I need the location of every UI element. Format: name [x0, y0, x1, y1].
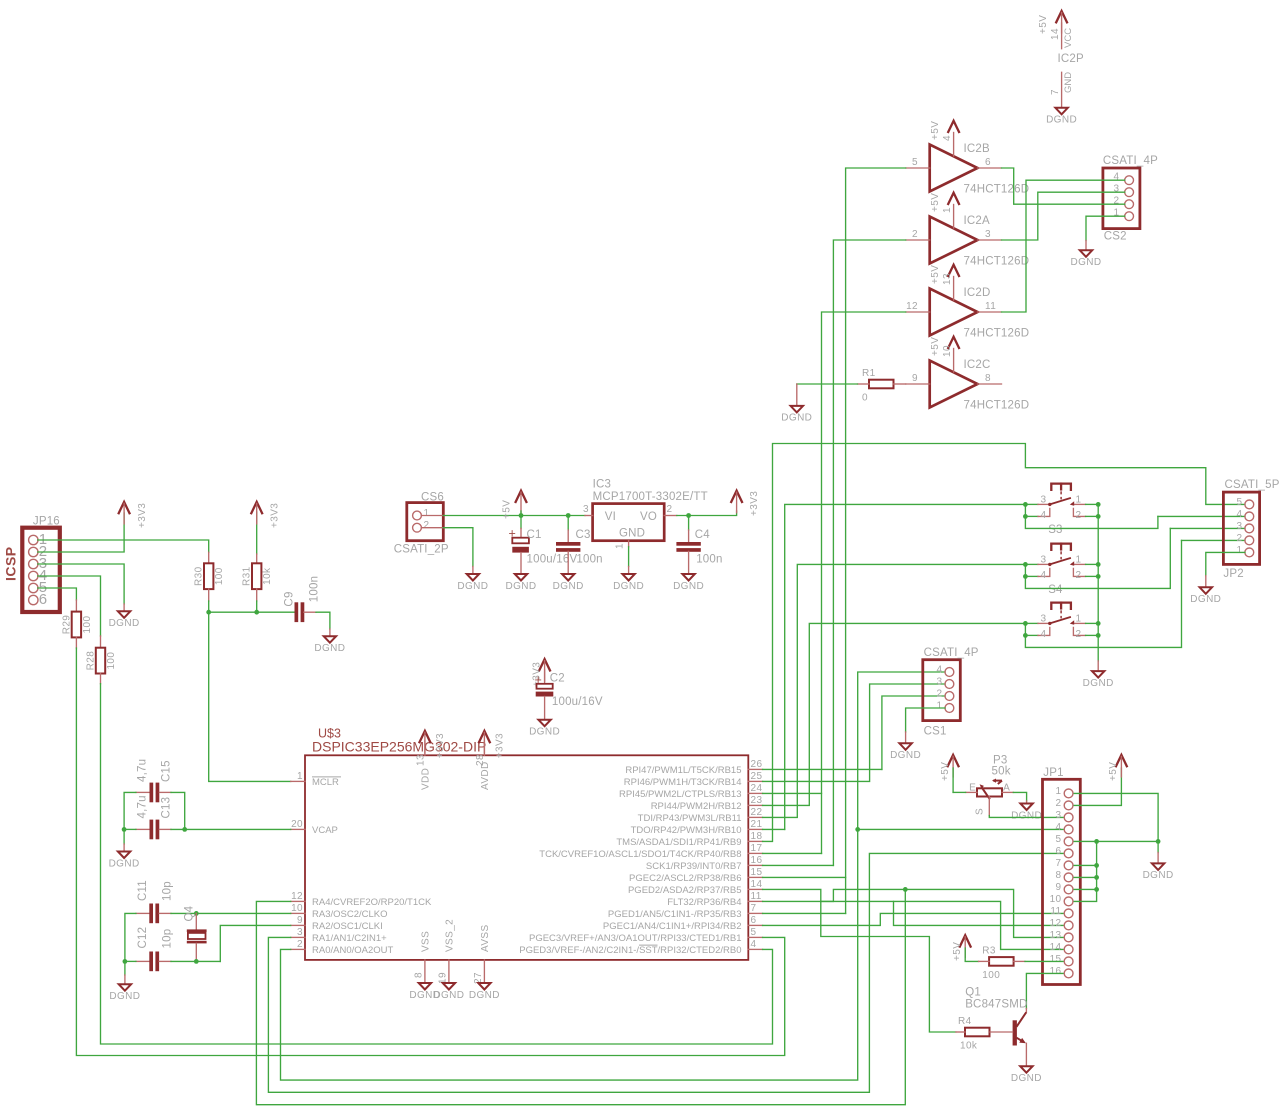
svg-text:100: 100	[106, 652, 117, 670]
svg-text:18: 18	[751, 831, 763, 842]
svg-text:2: 2	[1056, 798, 1062, 809]
svg-text:PGED2/ASDA2/RP37/RB5: PGED2/ASDA2/RP37/RB5	[628, 885, 742, 896]
wire S3 output to JP2 pin4	[1158, 515, 1245, 517]
svg-text:+3V3: +3V3	[269, 503, 280, 528]
svg-text:4: 4	[1041, 510, 1047, 521]
U$3 power pin 28 AVDD with +3V3	[475, 731, 506, 790]
svg-text:Q4: Q4	[184, 905, 196, 921]
svg-text:4: 4	[1041, 570, 1047, 581]
svg-text:+5V: +5V	[930, 337, 941, 356]
wire U$3 pin21 to switch S3 input	[763, 504, 1026, 829]
svg-text:DGND: DGND	[781, 413, 812, 424]
IC U$3 DSPIC33EP256MG302-DIP body	[305, 727, 748, 960]
svg-text:RPI44/PWM2H/RB12: RPI44/PWM2H/RB12	[651, 801, 742, 812]
wire CS6 pin1 to regulator VI	[421, 513, 585, 518]
svg-text:16: 16	[1050, 966, 1062, 977]
resistor R4 10k	[956, 1016, 1013, 1052]
wire JP1 pin2 to +5V	[1074, 768, 1121, 805]
svg-text:TMS/ASDA1/SDI1/RP41/RB9: TMS/ASDA1/SDI1/RP41/RB9	[616, 837, 741, 848]
svg-text:3: 3	[1041, 554, 1047, 565]
svg-text:CSATI_2P: CSATI_2P	[394, 544, 449, 556]
wire JP1 pin1 to ground riser	[1074, 793, 1158, 841]
svg-text:9: 9	[1056, 882, 1062, 893]
svg-text:4,7u: 4,7u	[137, 795, 149, 818]
wire R1 to DGND junction	[797, 383, 858, 385]
svg-text:22: 22	[751, 807, 763, 818]
svg-text:7: 7	[1056, 858, 1062, 869]
svg-text:13: 13	[415, 754, 426, 766]
ground DGND for IC2P	[1046, 108, 1077, 126]
ground DGND at CS6 pin2	[457, 567, 488, 592]
svg-text:SCK1/RP39/INT0/RB7: SCK1/RP39/INT0/RB7	[646, 861, 742, 872]
U$3 pin 10 RA3/OSC2/CLKO	[291, 903, 388, 920]
svg-text:100u/16V: 100u/16V	[552, 696, 603, 708]
ground DGND at R1	[781, 384, 812, 424]
wire R3 to JP1 pin15	[1025, 960, 1063, 962]
wire U$3 pin2 RA0 via bottom bus to CS1 pin4	[281, 672, 946, 1080]
svg-text:VI: VI	[605, 511, 616, 523]
svg-text:IC2C: IC2C	[964, 359, 991, 371]
power symbol +5V for IC2P	[1038, 11, 1067, 34]
svg-text:RPI46/PWM1H/T3CK/RB14: RPI46/PWM1H/T3CK/RB14	[624, 777, 742, 788]
wire CS2 pin 1 to ground	[1086, 216, 1125, 240]
svg-text:GND: GND	[619, 528, 645, 540]
capacitor C12 10p	[136, 927, 174, 971]
svg-text:4: 4	[937, 665, 943, 676]
connector CS1 CSATI_4P	[923, 647, 979, 738]
resistor R31 10k	[242, 512, 274, 601]
svg-text:11: 11	[985, 301, 996, 312]
svg-text:MCP1700T-3302E/TT: MCP1700T-3302E/TT	[593, 491, 708, 503]
switch S4	[1025, 544, 1098, 596]
svg-text:23: 23	[751, 795, 763, 806]
wire IC2D output to CS2 pin 4	[1002, 180, 1125, 312]
svg-text:PGEC1/AN4/C1IN1+/RPI34/RB2: PGEC1/AN4/C1IN1+/RPI34/RB2	[603, 921, 742, 932]
op-amp buffer IC2C 74HCT126D	[906, 337, 1030, 412]
wire U$3 pin24 and pin17 to IC2D input	[763, 312, 906, 853]
svg-text:12: 12	[906, 301, 918, 312]
svg-text:VDD: VDD	[420, 768, 431, 790]
svg-text:DSPIC33EP256MG302-DIP: DSPIC33EP256MG302-DIP	[312, 739, 486, 755]
svg-text:TDO/RP42/PWM3H/RB10: TDO/RP42/PWM3H/RB10	[631, 825, 742, 836]
svg-text:2: 2	[937, 689, 943, 700]
wire JP1 pins 7 8 9 10 common column	[1074, 841, 1099, 901]
wire P3 A to ground	[1013, 792, 1026, 801]
svg-text:C11: C11	[137, 880, 149, 901]
ground DGND at JP1	[1143, 853, 1174, 882]
svg-text:+5V: +5V	[930, 121, 941, 140]
svg-text:RA0/AN0/OA2OUT: RA0/AN0/OA2OUT	[312, 945, 393, 956]
U$3 pin 9 RA2/OSC1/CLKI	[291, 915, 383, 932]
wire U$3 pin18 to JP2 pin5	[763, 444, 1245, 842]
U$3 pin 4 PGED3/VREF-/AN2/C2IN1-/SST/RPI32/CTED2/RB0	[519, 939, 762, 956]
svg-text:C9: C9	[284, 591, 296, 606]
ground DGND at C4	[673, 574, 704, 592]
wire U$3 pin22 to switch S4 input	[763, 564, 1026, 817]
svg-text:11: 11	[1050, 906, 1061, 917]
svg-text:PGED1/AN5/C1IN1-/RP35/RB3: PGED1/AN5/C1IN1-/RP35/RB3	[608, 909, 742, 920]
svg-text:7: 7	[751, 903, 757, 914]
svg-text:3: 3	[297, 927, 303, 938]
svg-text:10k: 10k	[960, 1041, 978, 1052]
svg-text:DGND: DGND	[1011, 810, 1042, 821]
svg-text:3: 3	[1237, 521, 1243, 532]
svg-text:DGND: DGND	[1190, 594, 1221, 605]
wire U$3 pin25 and pin16 to IC2A input and CS1 pin3	[763, 240, 945, 865]
svg-text:6: 6	[39, 591, 47, 608]
svg-text:IC3: IC3	[593, 479, 612, 491]
wire U$3 pin3 RA1 via bottom bus to JP1 pin6 feed	[268, 853, 1063, 1092]
wire +5V to R3	[965, 948, 978, 961]
connector JP16 ICSP	[3, 516, 60, 613]
svg-text:6: 6	[1056, 846, 1062, 857]
U$3 pin 21 TDO/RP42/PWM3H/RB10	[631, 819, 763, 836]
wire to JP1 pin14 via riser at x=1000.6	[821, 901, 1063, 949]
svg-text:10p: 10p	[162, 929, 174, 949]
U$3 pin 20 VCAP	[291, 819, 338, 836]
svg-text:6: 6	[751, 915, 757, 926]
svg-text:RA3/OSC2/CLKO: RA3/OSC2/CLKO	[312, 909, 388, 920]
svg-text:CS1: CS1	[924, 726, 947, 738]
svg-text:1: 1	[615, 543, 626, 549]
svg-text:VCC: VCC	[1063, 28, 1074, 48]
power symbol +3V3 at C2	[531, 659, 550, 687]
U$3 pin 3 RA1/AN1/C2IN1+	[291, 927, 387, 944]
svg-text:DGND: DGND	[314, 643, 345, 654]
svg-text:DGND: DGND	[433, 990, 464, 1001]
svg-text:2: 2	[1076, 629, 1082, 640]
U$3 ground pin 27 AVSS	[469, 924, 500, 1000]
svg-text:10: 10	[291, 903, 303, 914]
connector JP2 CSATI_5P	[1223, 479, 1279, 580]
svg-text:FLT32/RP36/RB4: FLT32/RP36/RB4	[667, 897, 741, 908]
svg-text:Q1: Q1	[965, 987, 981, 999]
ground DGND at C12	[109, 975, 140, 1002]
power symbol +3V3 at R31	[251, 502, 280, 528]
svg-text:DGND: DGND	[553, 581, 584, 592]
U$3 pin 26 RPI47/PWM1L/T5CK/RB15	[625, 759, 762, 776]
svg-text:2: 2	[1237, 533, 1243, 544]
svg-text:IC2B: IC2B	[964, 143, 990, 155]
svg-text:17: 17	[751, 843, 763, 854]
U$3 pin 12 RA4/CVREF2O/RP20/T1CK	[291, 891, 432, 908]
svg-text:DGND: DGND	[529, 727, 560, 738]
svg-text:IC2A: IC2A	[964, 215, 990, 227]
capacitor C15 4,7u	[136, 759, 173, 802]
wire C12 row junctions	[123, 959, 221, 964]
ground DGND at IC3	[613, 567, 644, 592]
svg-text:+3V3: +3V3	[749, 491, 760, 516]
power symbol +5V at P3	[940, 755, 959, 781]
svg-text:CSATI_4P: CSATI_4P	[924, 647, 979, 659]
svg-text:1: 1	[1114, 208, 1120, 219]
wire C9 to ground	[316, 612, 330, 629]
svg-text:1: 1	[424, 508, 430, 519]
svg-text:DGND: DGND	[505, 581, 536, 592]
svg-text:R4: R4	[958, 1016, 972, 1027]
svg-text:C3: C3	[576, 529, 591, 541]
svg-text:R28: R28	[86, 651, 97, 671]
svg-text:2: 2	[297, 939, 303, 950]
svg-text:DGND: DGND	[1011, 1073, 1042, 1084]
svg-text:PGEC3/VREF+/AN3/OA1OUT/RPI33/C: PGEC3/VREF+/AN3/OA1OUT/RPI33/CTED1/RB1	[529, 933, 742, 944]
capacitor C11 10p	[136, 880, 174, 923]
ground DGND at C3	[553, 574, 584, 592]
svg-text:JP16: JP16	[33, 516, 60, 528]
svg-text:4: 4	[1114, 172, 1120, 183]
svg-text:S: S	[975, 808, 986, 815]
svg-text:+: +	[535, 673, 542, 687]
power symbol +5V at R3	[952, 935, 971, 961]
ground DGND at C2	[529, 720, 560, 738]
IC2P GND pin 7	[1050, 72, 1074, 108]
wire U$3 pin23 to switch S5 input	[763, 623, 1026, 805]
svg-text:TCK/CVREF1O/ASCL1/SDO1/T4CK/RP: TCK/CVREF1O/ASCL1/SDO1/T4CK/RP40/RB8	[539, 849, 741, 860]
svg-text:C2: C2	[550, 673, 565, 685]
svg-text:16: 16	[751, 855, 763, 866]
svg-text:5: 5	[1237, 497, 1243, 508]
svg-text:4: 4	[1237, 509, 1243, 520]
op-amp buffer IC2B 74HCT126D	[906, 121, 1030, 196]
wire JP16 pin4 to R28	[38, 576, 101, 636]
svg-text:RA1/AN1/C2IN1+: RA1/AN1/C2IN1+	[312, 933, 387, 944]
wire C11 right to U$3 pin 10	[171, 911, 291, 916]
wire VCAP row to U$3 pin 20	[122, 827, 291, 832]
svg-text:GND: GND	[1063, 72, 1074, 93]
capacitor C4 100n	[676, 516, 722, 575]
U$3 pin 24 RPI45/PWM2L/CTPLS/RB13	[619, 783, 763, 800]
transistor Q1 BC847SMD	[965, 987, 1027, 1067]
capacitor C3 100n	[556, 516, 603, 575]
svg-text:+3V3: +3V3	[494, 733, 505, 758]
svg-text:+5V: +5V	[930, 265, 941, 284]
svg-text:4: 4	[1041, 629, 1047, 640]
svg-text:2: 2	[667, 504, 673, 515]
ground DGND at CS1	[890, 732, 921, 761]
svg-text:R3: R3	[982, 945, 996, 956]
svg-text:2: 2	[424, 520, 430, 531]
resistor R28 100	[86, 636, 118, 684]
wire U$3 pin11 to JP1 pin13	[763, 889, 1063, 937]
svg-text:RA4/CVREF2O/RP20/T1CK: RA4/CVREF2O/RP20/T1CK	[312, 897, 432, 908]
power symbol +3V3 at regulator output	[731, 491, 760, 516]
wire JP16 pin1 to R30	[38, 540, 209, 552]
capacitor C1 100u/16V	[509, 527, 578, 575]
svg-text:+3V3: +3V3	[137, 503, 148, 528]
U$3 pin 22 TDI/RP43/PWM3L/RB11	[638, 807, 763, 824]
svg-text:+5V: +5V	[502, 500, 513, 519]
power symbol +5V at JP1 pin2	[1108, 755, 1127, 781]
svg-text:100: 100	[214, 567, 225, 585]
svg-text:2: 2	[912, 229, 918, 240]
svg-text:100u/16V: 100u/16V	[527, 554, 578, 566]
svg-text:1: 1	[1076, 554, 1082, 565]
ground DGND at P3	[1011, 801, 1042, 821]
wire JP2 pin1 to ground	[1206, 552, 1245, 575]
capacitor C9 100n	[284, 576, 321, 622]
svg-text:14: 14	[1050, 942, 1062, 953]
wire JP1 pin5 ground row	[1074, 839, 1160, 844]
wire U$3 pin4 via R28 bus to JP16	[101, 684, 773, 1044]
U$3 pin 18 TMS/ASDA1/SDI1/RP41/RB9	[616, 831, 762, 848]
svg-text:10: 10	[1050, 894, 1062, 905]
switch None	[1025, 603, 1098, 640]
svg-text:RPI45/PWM2L/CTPLS/RB13: RPI45/PWM2L/CTPLS/RB13	[619, 789, 742, 800]
svg-text:2: 2	[1076, 570, 1082, 581]
ground DGND at CS2	[1070, 241, 1101, 269]
svg-text:C15: C15	[161, 760, 173, 782]
svg-text:12: 12	[291, 891, 303, 902]
svg-text:IC2D: IC2D	[964, 287, 991, 299]
wire U$3 pin26 and pin15 to IC2B input and CS1 pin2	[763, 168, 945, 913]
svg-text:2: 2	[1114, 196, 1120, 207]
U$3 power pin 13 VDD with +3V3	[415, 731, 446, 790]
crystal Q4	[184, 905, 207, 961]
potentiometer P3 50k	[966, 755, 1014, 816]
svg-text:4: 4	[751, 939, 757, 950]
ground DGND at JP16 pin3	[109, 604, 140, 629]
wire C12 left to ground	[124, 961, 126, 975]
ground DGND at C9	[314, 629, 345, 654]
svg-text:DGND: DGND	[109, 618, 140, 629]
resistor R3 100	[979, 945, 1025, 981]
svg-text:5: 5	[912, 157, 918, 168]
svg-text:4: 4	[1056, 822, 1062, 833]
svg-text:100n: 100n	[309, 576, 321, 602]
svg-text:VCAP: VCAP	[312, 825, 338, 836]
svg-text:15: 15	[1050, 954, 1062, 965]
wire C15 to C13 left	[124, 792, 136, 829]
svg-text:VSS_2: VSS_2	[444, 919, 455, 952]
svg-text:3: 3	[1041, 494, 1047, 505]
U$3 pin 17 TCK/CVREF1O/ASCL1/SDO1/T4CK/RP40/RB8	[539, 843, 762, 860]
svg-text:DGND: DGND	[1046, 115, 1077, 126]
svg-text:ICSP: ICSP	[3, 546, 19, 581]
svg-text:DGND: DGND	[1143, 870, 1174, 881]
U$3 pin 23 RPI44/PWM2H/RB12	[651, 795, 763, 812]
connector JP1 16 pin header	[1043, 767, 1081, 985]
wire IC2B output to CS2 pin 2	[1002, 168, 1125, 204]
svg-text:DGND: DGND	[457, 581, 488, 592]
wire to JP1 pin12 via riser at x=893.5	[894, 901, 1064, 925]
wire S5 left column and output to x=1181.5	[1023, 540, 1182, 647]
svg-text:S3: S3	[1048, 524, 1062, 536]
U$3 pin 11 FLT32/RP36/RB4	[667, 891, 762, 908]
wire U$3 pin14 to R4 and Q1 base	[763, 889, 956, 1032]
svg-text:DGND: DGND	[1070, 257, 1101, 268]
svg-text:10: 10	[942, 345, 953, 357]
svg-text:CS6: CS6	[421, 492, 444, 504]
svg-text:9: 9	[297, 915, 303, 926]
wire MCLR junction row R30 R31 C9	[206, 601, 295, 615]
wire CS1 pin4 column to JP1 pin4	[855, 827, 1063, 832]
svg-text:1: 1	[1076, 613, 1082, 624]
capacitor C2 100u/16V	[535, 670, 603, 720]
svg-text:11: 11	[751, 891, 762, 902]
svg-text:C12: C12	[137, 927, 149, 949]
wire JP1 ground net to DGND	[1157, 841, 1159, 852]
svg-text:2: 2	[1076, 510, 1082, 521]
svg-text:S4: S4	[1048, 584, 1063, 596]
svg-text:3: 3	[1114, 184, 1120, 195]
svg-text:MCLR: MCLR	[312, 777, 339, 788]
svg-text:TDI/RP43/PWM3L/RB11: TDI/RP43/PWM3L/RB11	[638, 813, 742, 824]
wire CS1 pin1 to ground	[906, 708, 945, 732]
U$3 pin 1 MCLR	[291, 771, 341, 788]
U$3 ground pin 19 VSS_2	[433, 919, 464, 1001]
wire IC2A output to CS2 pin 3	[1002, 192, 1125, 240]
svg-text:DGND: DGND	[109, 991, 140, 1002]
svg-text:1: 1	[297, 771, 303, 782]
wire S4 left column and output to x=1170.3	[1023, 528, 1170, 588]
svg-text:DGND: DGND	[673, 581, 704, 592]
svg-text:DGND: DGND	[109, 858, 140, 869]
svg-text:8: 8	[1056, 870, 1062, 881]
wire C13 left to ground	[123, 829, 125, 844]
resistor R30 100	[194, 552, 226, 601]
svg-text:VSS: VSS	[420, 931, 431, 952]
power symbol +5V at C1 junction	[502, 491, 527, 529]
svg-text:DGND: DGND	[613, 581, 644, 592]
U$3 pin 14 PGED2/ASDA2/RP37/RB5	[628, 879, 763, 896]
svg-text:12: 12	[1050, 918, 1062, 929]
wire JP16 pin3 to ground	[38, 564, 124, 604]
svg-text:74HCT126D: 74HCT126D	[964, 184, 1030, 196]
svg-text:5: 5	[751, 927, 757, 938]
connector CS6 CSATI_2P	[394, 492, 449, 556]
svg-text:4: 4	[942, 135, 953, 141]
svg-text:R29: R29	[61, 615, 72, 635]
ground DGND at Q1 emitter	[1011, 1066, 1042, 1084]
svg-text:8: 8	[985, 373, 991, 384]
svg-text:+5V: +5V	[952, 942, 963, 961]
wire S5 output to JP2 pin2	[1182, 539, 1245, 541]
svg-text:6: 6	[985, 157, 991, 168]
svg-text:21: 21	[751, 819, 763, 830]
op-amp buffer IC2A 74HCT126D	[906, 193, 1030, 268]
svg-text:CSATI_4P: CSATI_4P	[1103, 155, 1158, 167]
svg-text:IC2P: IC2P	[1058, 53, 1084, 65]
wire U$3 pin6 to JP1 pin11	[763, 913, 1063, 925]
wire S3 left column and output to x=1157.9	[1023, 502, 1158, 528]
svg-text:AVDD: AVDD	[480, 761, 491, 790]
svg-text:CSATI_5P: CSATI_5P	[1225, 479, 1280, 491]
svg-text:13: 13	[942, 273, 953, 285]
svg-text:14: 14	[1050, 28, 1061, 40]
svg-text:7: 7	[1050, 89, 1061, 95]
svg-text:PGED3/VREF-/AN2/C2IN1-/SST/RPI: PGED3/VREF-/AN2/C2IN1-/SST/RPI32/CTED2/R…	[519, 945, 741, 956]
U$3 pin 16 SCK1/RP39/INT0/RB7	[646, 855, 763, 872]
svg-text:4,7u: 4,7u	[137, 759, 149, 782]
svg-text:CS2: CS2	[1104, 231, 1127, 243]
wire C11 left down to C12	[125, 913, 136, 961]
svg-text:C4: C4	[695, 529, 711, 541]
svg-text:25: 25	[751, 771, 763, 782]
svg-text:3: 3	[985, 229, 991, 240]
IC2P VCC pin 14	[1050, 23, 1084, 65]
wire CS6 pin2 to ground	[421, 528, 473, 567]
U$3 pin 6 PGEC1/AN4/C1IN1+/RPI34/RB2	[603, 915, 763, 932]
svg-text:3: 3	[937, 677, 943, 688]
svg-text:50k: 50k	[992, 766, 1011, 778]
svg-text:C13: C13	[161, 797, 173, 819]
ground DGND at C13	[109, 844, 140, 869]
svg-text:100n: 100n	[576, 554, 602, 566]
wire JP1 pin16 to Q1 collector	[1026, 973, 1063, 1008]
wire P3 E to +5V	[953, 791, 966, 793]
svg-text:8: 8	[413, 972, 424, 978]
wire U$3 pin7 row to column 845.5	[763, 912, 846, 914]
